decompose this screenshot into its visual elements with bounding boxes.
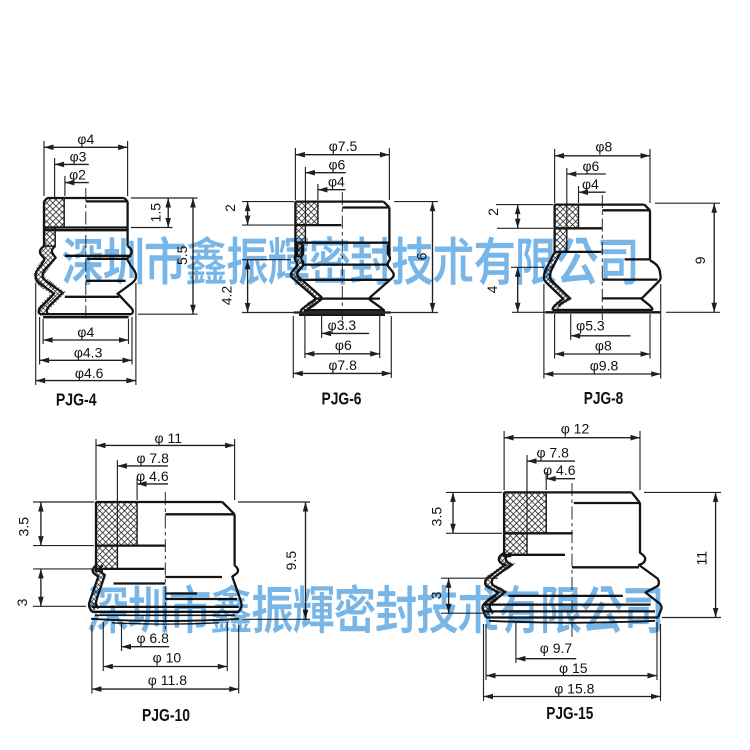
- PJG-8 dimension 2 (left side): [485, 205, 553, 229]
- PJG-10 dimension 3.5 (left side): [16, 502, 94, 546]
- PJG-15 lip bottom edges: [486, 618, 658, 623]
- PJG-4 dimension φ4.6: [36, 283, 136, 385]
- PJG-15 interior contour lines: [484, 567, 656, 611]
- PJG-6 dimension φ6 (top): [305, 157, 345, 226]
- PJG-15 centerline: [571, 483, 573, 640]
- PJG-4 dimension line φ4 (top): [44, 131, 128, 196]
- PJG-6 label: [322, 389, 362, 409]
- PJG-10 cup top cylinder: [96, 502, 235, 572]
- PJG-15 dimension φ15.8 (bottom): [484, 624, 661, 701]
- PJG-4 bellows silhouette (right): [118, 246, 136, 314]
- PJG-6 centerline: [341, 192, 343, 320]
- PJG-4 interior contour lines: [65, 256, 131, 297]
- PJG-8 bellows section band (left, hatched): [544, 252, 570, 310]
- PJG-15 cup top cylinder: [504, 492, 640, 556]
- PJG-15 dimension φ4.6 (top): [543, 462, 576, 490]
- PJG-4 cup top cylinder: [44, 198, 128, 246]
- PJG-10 dimension 3 (left side): [14, 569, 94, 606]
- PJG-4 lip bottom edge: [40, 314, 132, 317]
- PJG-8 dimension 9 (right side): [655, 203, 720, 312]
- PJG-8 cup top cylinder: [555, 205, 650, 261]
- PJG-6 cup top cylinder: [295, 202, 389, 257]
- PJG-4 dimension line φ2: [65, 166, 89, 196]
- PJG-15 dimension φ9.7 (bottom): [516, 622, 576, 663]
- PJG-8 bellows silhouette (right): [641, 260, 660, 310]
- PJG-10 dimension φ6.8 (bottom): [122, 622, 170, 651]
- PJG-10 skirt section band (left, hatched): [89, 565, 105, 611]
- PJG-15 dimension φ7.8 (top): [527, 445, 575, 534]
- PJG-6 dimension φ4 (top): [318, 174, 346, 201]
- PJG-15 label: [546, 703, 593, 723]
- PJG-8 centerline: [601, 195, 603, 320]
- PJG-4 hatched section wall (left): [44, 198, 64, 246]
- PJG-10 skirt silhouette (right): [232, 565, 241, 611]
- PJG-6 dimension φ7.8 (bottom): [293, 316, 391, 378]
- PJG-15 dimension 3.5 (left side): [428, 492, 502, 533]
- PJG-8 dimension φ9.8 (bottom): [544, 284, 661, 379]
- PJG-4 dimension line φ3: [55, 148, 89, 199]
- PJG-6 bellows silhouette (right): [369, 244, 393, 313]
- PJG-4 dimension φ4.3: [40, 317, 132, 365]
- PJG-4 dimension φ4 (bottom): [43, 319, 128, 344]
- PJG-8 bottom extension line: [512, 311, 545, 313]
- PJG-4 dimension 1.5 (right side): [131, 198, 198, 228]
- PJG-10 dimension φ10 (bottom): [103, 622, 227, 671]
- PJG-6 dimension φ6 (bottom): [305, 314, 380, 358]
- PJG-10 dimension φ11 (top): [96, 430, 235, 500]
- PJG-8 lip bottom edge: [545, 310, 661, 312]
- PJG-8 dimension φ5.3 (bottom): [571, 314, 631, 340]
- PJG-8 dimension φ8 (top): [555, 139, 650, 204]
- PJG-6 hatched section wall (left): [295, 202, 318, 257]
- PJG-8 interior contour lines: [602, 259, 657, 298]
- PJG-8 label: [584, 388, 624, 408]
- PJG-4 centerline: [85, 188, 87, 322]
- PJG-10 dimension φ7.8 (top): [117, 450, 169, 546]
- PJG-6 lip bottom edge: [294, 313, 391, 315]
- PJG-4 bellows section band (left, hatched): [39, 246, 58, 314]
- PJG-8 dimension φ6 (top): [567, 158, 606, 229]
- PJG-6 dimension φ3.3 (bottom): [322, 314, 370, 338]
- PJG-10 dimension φ4.6 (top): [136, 468, 169, 500]
- watermark row 1: 深圳市鑫振辉密封技术有限公司: [63, 236, 636, 285]
- PJG-4 dimension 5.5 (right side): [138, 198, 198, 314]
- PJG-6 bellows section band (left, hatched): [291, 244, 322, 313]
- PJG-10 dimension 9.5 (right side): [238, 502, 310, 619]
- PJG-15 dimension 11 (right side): [644, 492, 721, 617]
- PJG-4 label: [56, 389, 97, 409]
- PJG-10 dimension φ11.8 (bottom): [92, 625, 239, 694]
- PJG-10 centerline: [164, 492, 166, 630]
- watermark row 2: 深圳市鑫振辉密封技术有限公司: [88, 584, 661, 633]
- PJG-6 interior contour lines: [299, 265, 391, 311]
- PJG-15 skirt section band (left, hatched): [483, 553, 512, 618]
- PJG-8 dimension φ4 (top): [579, 176, 606, 203]
- PJG-8 dimension 4 (left side): [484, 267, 544, 312]
- PJG-6 dimension 4.2 (left side): [219, 260, 292, 313]
- PJG-6 dimension φ7.5 (top): [295, 138, 389, 200]
- PJG-6 dimension 6 (right side): [394, 202, 438, 313]
- PJG-8 dimension φ8 (bottom): [555, 314, 650, 359]
- PJG-6 bottom extension line: [242, 312, 438, 314]
- PJG-10 hatched section wall (left): [96, 502, 137, 572]
- PJG-15 dimension φ12 (top): [504, 421, 640, 490]
- PJG-6 dimension 2 (left side): [222, 202, 294, 226]
- PJG-8 hatched section wall (left): [555, 205, 579, 253]
- PJG-15 dimension 3 (left side): [428, 578, 498, 613]
- PJG-10 lip bottom edges: [91, 612, 239, 624]
- PJG-15 hatched section wall (left): [504, 492, 546, 556]
- PJG-10 interior contour lines: [92, 577, 239, 607]
- PJG-15 skirt silhouette (right): [639, 553, 661, 618]
- PJG-15 dimension φ15 (bottom): [486, 622, 657, 680]
- PJG-10 label: [142, 705, 190, 725]
